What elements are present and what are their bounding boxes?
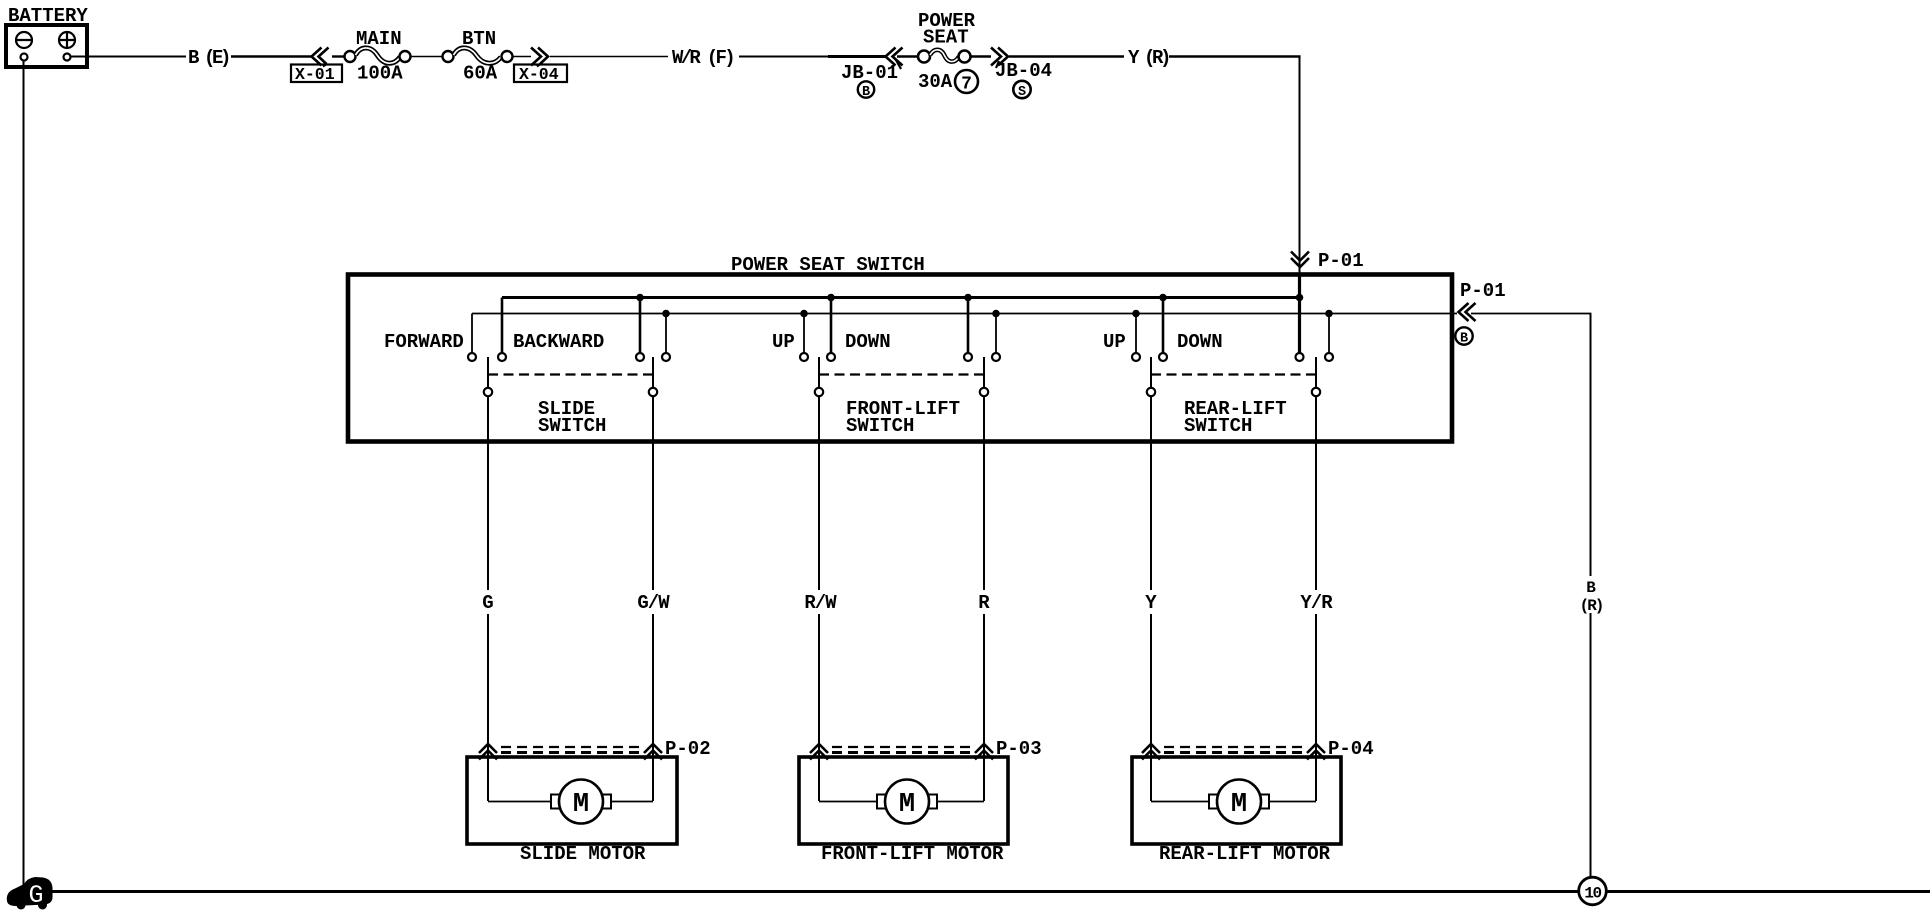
junction dots on thin bus xyxy=(662,310,1333,318)
svg-text:B: B xyxy=(1460,332,1468,347)
wire label G/W xyxy=(637,590,671,614)
wire xyxy=(231,55,312,57)
connector P-02 xyxy=(479,738,711,760)
svg-text:(R): (R) xyxy=(1580,597,1603,615)
svg-text:R/W: R/W xyxy=(804,592,837,614)
svg-text:FRONT-LIFT MOTOR: FRONT-LIFT MOTOR xyxy=(821,843,1004,865)
wires switch to slide motor xyxy=(487,442,489,590)
wire xyxy=(739,56,886,58)
svg-text:B (E): B (E) xyxy=(188,47,229,69)
svg-text:SEAT: SEAT xyxy=(923,27,969,49)
wire, net W/R(F) xyxy=(513,56,531,58)
svg-text:P-01: P-01 xyxy=(1460,280,1506,302)
connector JB-01 xyxy=(841,48,903,101)
ground bus wire (bottom) xyxy=(30,890,1930,893)
svg-text:R: R xyxy=(978,592,990,614)
svg-text:Y (R): Y (R) xyxy=(1128,47,1169,69)
junction dots on thick bus xyxy=(636,294,1303,302)
svg-text:S: S xyxy=(1018,85,1026,100)
svg-text:M: M xyxy=(573,790,589,820)
svg-text:REAR-LIFT MOTOR: REAR-LIFT MOTOR xyxy=(1159,843,1331,865)
power seat switch box U1 xyxy=(348,254,1452,442)
svg-text:100A: 100A xyxy=(357,63,403,85)
slide motor M1 xyxy=(467,757,677,865)
rear-lift motor M3 xyxy=(1132,757,1341,865)
slide switch S1 xyxy=(384,298,670,443)
wire vertical drop to P-01 xyxy=(1299,57,1301,355)
wire xyxy=(897,55,918,57)
ground G (body ground, car silhouette) xyxy=(7,877,53,910)
wire xyxy=(332,55,345,57)
wire, net B(R) xyxy=(1471,313,1591,315)
svg-text:B: B xyxy=(862,85,870,100)
connector P-01 (top) xyxy=(1291,250,1364,272)
connector JB-04 xyxy=(991,48,1052,101)
connector P-04 xyxy=(1142,738,1374,760)
wires switch to rear-lift motor xyxy=(1150,442,1152,590)
svg-text:G: G xyxy=(482,592,493,614)
wire label Y/R xyxy=(1299,590,1333,614)
connector X-04 xyxy=(514,48,567,85)
wire label Y xyxy=(1141,590,1161,614)
svg-text:FORWARD: FORWARD xyxy=(384,331,464,353)
svg-text:P-01: P-01 xyxy=(1318,250,1364,272)
rear-lift switch S3 xyxy=(1103,298,1333,443)
wire label R/W xyxy=(803,590,837,614)
node 10 (ground joint) xyxy=(1579,877,1607,905)
bus thick (feed) xyxy=(502,296,1300,299)
svg-text:UP: UP xyxy=(772,331,795,353)
svg-text:Y: Y xyxy=(1145,592,1157,614)
svg-text:SWITCH: SWITCH xyxy=(1184,415,1252,437)
front-lift switch S2 xyxy=(772,298,1000,443)
wires switch to front-lift motor xyxy=(818,442,820,590)
svg-text:B: B xyxy=(1586,579,1596,597)
wire, net Y(R) xyxy=(971,55,991,57)
front-lift motor M2 xyxy=(799,757,1008,865)
connector P-03 xyxy=(810,738,1042,760)
svg-text:SLIDE MOTOR: SLIDE MOTOR xyxy=(520,843,646,865)
wire battery negative to ground bus xyxy=(23,60,25,890)
svg-text:SWITCH: SWITCH xyxy=(846,415,914,437)
svg-text:DOWN: DOWN xyxy=(845,331,891,353)
wire battery positive to X-01, net B(E) xyxy=(70,56,186,58)
svg-text:M: M xyxy=(899,790,915,820)
svg-text:DOWN: DOWN xyxy=(1177,331,1223,353)
svg-text:W/R (F): W/R (F) xyxy=(672,47,733,69)
fuse POWER SEAT 30A, fuse 7 xyxy=(918,10,978,95)
svg-text:G: G xyxy=(28,881,43,910)
svg-text:JB-01: JB-01 xyxy=(841,62,898,84)
connector P-01 (right, to ground return) xyxy=(1455,280,1505,347)
svg-text:X-04: X-04 xyxy=(519,65,559,84)
svg-text:BACKWARD: BACKWARD xyxy=(513,331,604,353)
connector X-01 xyxy=(291,48,342,85)
label B (R) xyxy=(1578,576,1604,615)
wire to corner xyxy=(1169,55,1301,57)
bus thin (return) xyxy=(472,313,1457,315)
wire label R xyxy=(974,590,994,614)
svg-text:X-01: X-01 xyxy=(295,65,335,84)
svg-text:UP: UP xyxy=(1103,331,1126,353)
wire label G xyxy=(478,590,498,614)
svg-text:60A: 60A xyxy=(463,63,498,85)
svg-text:SWITCH: SWITCH xyxy=(538,415,606,437)
svg-text:7: 7 xyxy=(961,75,972,95)
svg-text:Y/R: Y/R xyxy=(1300,592,1333,614)
svg-text:G/W: G/W xyxy=(637,592,670,614)
svg-text:M: M xyxy=(1231,790,1247,820)
fuse BTN 60A xyxy=(443,28,513,85)
fuse MAIN 100A xyxy=(345,28,411,85)
wire xyxy=(410,56,443,58)
svg-text:30A: 30A xyxy=(918,71,953,93)
battery B1 xyxy=(6,5,88,67)
svg-text:10: 10 xyxy=(1584,885,1601,903)
svg-text:JB-04: JB-04 xyxy=(995,60,1052,82)
